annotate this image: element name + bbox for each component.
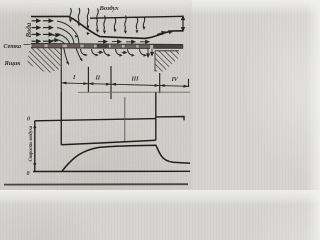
upper curve plateau <box>61 140 156 145</box>
svg-text:IV: IV <box>171 76 179 83</box>
paper grain <box>0 0 192 190</box>
svg-text:Скорость воздуха: Скорость воздуха <box>29 125 34 161</box>
lower curve rising then falling <box>62 145 190 171</box>
x axis <box>33 170 190 172</box>
streamline arrowhead in bend <box>75 35 78 38</box>
leader line <box>24 43 31 45</box>
svg-text:Ящик: Ящик <box>4 60 22 67</box>
dimension ticks <box>61 66 188 99</box>
separator line under dimension <box>78 91 190 93</box>
bottom frame border <box>4 183 188 185</box>
svg-text:Воздух: Воздух <box>99 5 120 12</box>
graph left axis with arrows <box>34 121 36 172</box>
duct ceiling line <box>90 16 183 18</box>
wavy air arrows, left group <box>70 8 99 31</box>
svg-text:Вода: Вода <box>25 22 33 38</box>
arrowhead on surface curve <box>87 32 90 35</box>
box left wall hatching (ящик) <box>27 48 61 74</box>
svg-text:0: 0 <box>27 117 30 123</box>
mesh (сетка): top and bottom lines <box>31 44 183 45</box>
svg-text:II: II <box>95 75 101 82</box>
mesh band underlay <box>31 44 183 48</box>
water flow arrows (left), 4 rows <box>32 19 60 42</box>
right solid block below mesh <box>155 51 179 72</box>
water surface line left + descent curve <box>31 16 183 38</box>
small dash arrows under mesh <box>98 51 127 54</box>
dimension line with arrows <box>61 83 188 86</box>
svg-text:0: 0 <box>27 171 30 177</box>
streamlines continuing below mesh, left <box>64 48 82 65</box>
upper curve back to zero after mesh <box>156 117 184 121</box>
hook arrows under mesh (air entrained right) <box>81 49 145 55</box>
water layer arrows above mesh, right <box>98 31 173 44</box>
box inner right wall <box>60 48 62 71</box>
top zero line <box>35 119 156 121</box>
bend streamlines (flow turning down through mesh) <box>57 21 79 43</box>
mesh hatched slabs <box>32 44 183 49</box>
svg-text:III: III <box>131 76 140 83</box>
end wall double arrow at x=183 <box>182 16 185 31</box>
small down arrows before block <box>147 49 154 58</box>
wavy air arrows, right group (from ceiling) <box>104 16 145 32</box>
projection verticals <box>60 92 62 145</box>
svg-text:Сетка: Сетка <box>4 43 22 50</box>
